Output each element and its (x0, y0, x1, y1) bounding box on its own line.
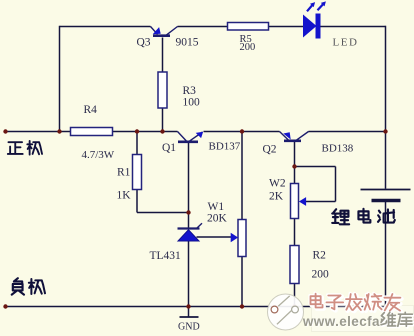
svg-text:9015: 9015 (176, 37, 199, 49)
svg-text:200: 200 (312, 269, 330, 281)
svg-text:Q3: Q3 (137, 37, 151, 49)
svg-text:BD138: BD138 (322, 143, 354, 155)
svg-text:W2: W2 (269, 178, 286, 190)
svg-text:BD137: BD137 (209, 141, 241, 153)
svg-text:LED: LED (333, 37, 359, 49)
svg-text:Q2: Q2 (263, 144, 277, 156)
svg-text:R1: R1 (117, 167, 131, 179)
svg-text:Q1: Q1 (162, 142, 176, 154)
svg-text:200: 200 (240, 42, 256, 53)
svg-text:R2: R2 (313, 250, 327, 262)
svg-text:100: 100 (183, 97, 201, 109)
svg-text:W1: W1 (208, 201, 225, 213)
svg-text:20K: 20K (207, 213, 228, 225)
svg-text:4.7/3W: 4.7/3W (82, 149, 115, 161)
svg-text:GND: GND (178, 322, 200, 333)
svg-text:1K: 1K (117, 190, 132, 202)
svg-text:R3: R3 (183, 85, 197, 97)
svg-text:R4: R4 (84, 104, 98, 116)
svg-text:2K: 2K (269, 191, 284, 203)
svg-text:TL431: TL431 (150, 250, 182, 262)
